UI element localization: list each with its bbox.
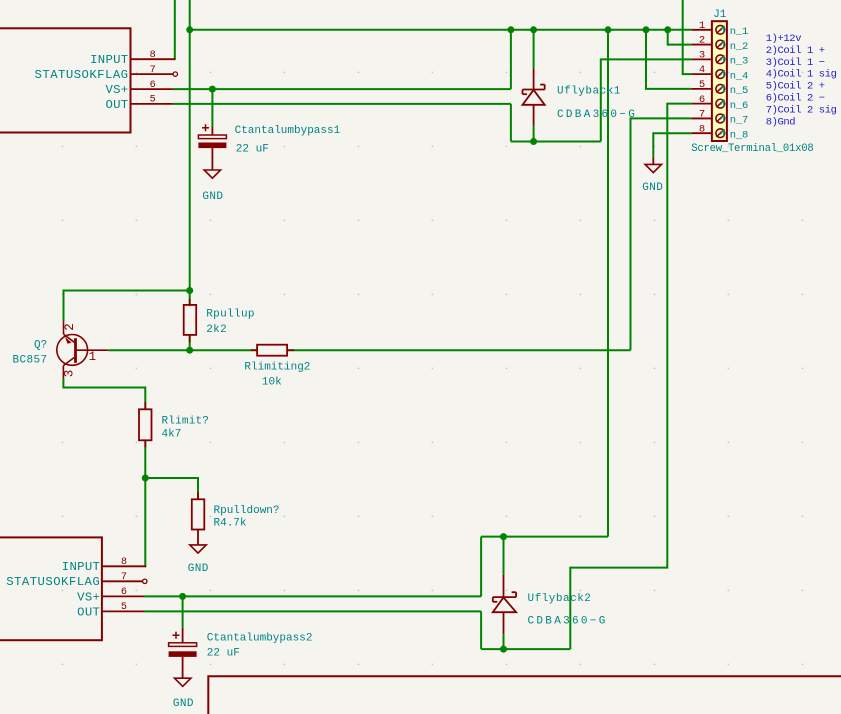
wire +12v main vertical (189, 0, 191, 350)
svg-text:GND: GND (173, 698, 194, 710)
value Screw_Terminal_01x08 (691, 143, 813, 155)
svg-text:VS+: VS+ (77, 590, 100, 604)
wire junction to U2 input (144, 478, 147, 566)
wire pin8 U1 input drop (174, 0, 176, 59)
svg-text:STATUSOKFLAG: STATUSOKFLAG (35, 68, 129, 82)
svg-text:6: 6 (121, 587, 127, 598)
Ctantalumbypass2 labels (207, 633, 313, 660)
Rpulldown? labels (214, 505, 280, 530)
wire Q base row (108, 349, 630, 351)
svg-text:Ctantalumbypass1: Ctantalumbypass1 (235, 125, 341, 137)
svg-text:INPUT: INPUT (62, 560, 100, 574)
J1 pins (691, 30, 712, 133)
wire diode1 bottom stub (533, 126, 535, 142)
svg-text:7)Coil 2 sig: 7)Coil 2 sig (766, 104, 837, 116)
svg-text:n_6: n_6 (730, 100, 748, 112)
wire VS+ row U1 (173, 88, 511, 90)
svg-text:GND: GND (202, 191, 223, 203)
svg-text:R4.7k: R4.7k (214, 518, 247, 530)
svg-text:n_3: n_3 (730, 56, 748, 68)
wire Q emitter to Rlimit (63, 379, 145, 410)
diode Uflyback1 (523, 68, 545, 125)
svg-text:22 uF: 22 uF (236, 143, 269, 155)
Rlimit? labels (162, 415, 210, 440)
connector J1 body (712, 21, 727, 141)
svg-text:n_7: n_7 (730, 115, 748, 127)
transistor Q1 BC857 (57, 321, 109, 379)
svg-text:8: 8 (121, 557, 127, 568)
svg-text:6)Coil 2 −: 6)Coil 2 − (766, 93, 825, 105)
svg-text:10k: 10k (262, 377, 282, 389)
svg-text:OUT: OUT (105, 98, 128, 112)
svg-text:Uflyback2: Uflyback2 (528, 593, 592, 605)
svg-text:Screw_Terminal_01x08: Screw_Terminal_01x08 (691, 143, 813, 155)
wire pin7 to Rlimiting2 (631, 118, 692, 350)
svg-text:4k7: 4k7 (162, 429, 182, 441)
wire diode1 top stub (533, 30, 535, 68)
svg-text:J1: J1 (713, 9, 727, 21)
svg-text:n_5: n_5 (730, 85, 748, 97)
svg-text:8: 8 (699, 123, 705, 135)
wire coil2+ long vertical (607, 30, 609, 537)
IC U1 body (0, 28, 131, 132)
wire pin3 riser (601, 59, 692, 141)
svg-text:7: 7 (699, 109, 705, 121)
partial box bottom-right (208, 676, 841, 714)
svg-text:7: 7 (121, 572, 127, 583)
IC U2 pins (102, 566, 147, 611)
svg-text:n_4: n_4 (730, 70, 748, 82)
diode Uflyback2 (493, 575, 516, 635)
wire flyback2 bottom rail (481, 648, 570, 650)
svg-text:5: 5 (699, 79, 705, 91)
svg-text:3)Coil 1 −: 3)Coil 1 − (766, 57, 825, 69)
resistor Rlimiting2 (257, 345, 287, 356)
wire pin6 long path (570, 104, 691, 649)
wire cap1 tap (211, 89, 213, 127)
reference J1 (713, 9, 727, 21)
svg-text:3: 3 (699, 49, 705, 61)
Q1 labels (13, 340, 48, 367)
svg-text:Uflyback1: Uflyback1 (557, 85, 621, 97)
wire +12v top rail (190, 29, 692, 31)
svg-text:1: 1 (89, 350, 97, 364)
svg-text:4: 4 (699, 64, 705, 76)
J1 screw symbols (716, 25, 725, 137)
wire junction to Rpulldown (145, 478, 198, 499)
wire diode2 bottom stub (503, 634, 505, 649)
Ctantalumbypass1 labels (235, 125, 341, 156)
wire Rlimit to junction (144, 440, 146, 478)
svg-text:6: 6 (150, 80, 156, 91)
svg-text:7: 7 (150, 65, 156, 76)
svg-text:INPUT: INPUT (90, 53, 128, 67)
text notes pinout (766, 33, 837, 128)
capacitor Ctantalumbypass1 (198, 124, 226, 170)
svg-text:2k2: 2k2 (206, 324, 227, 336)
svg-text:OUT: OUT (77, 605, 100, 619)
IC U2 pin numbers (121, 557, 127, 613)
Rpullup labels (206, 309, 255, 336)
svg-text:3: 3 (63, 370, 77, 378)
resistor Rpulldown? (192, 499, 205, 529)
wire pin2 feed (668, 30, 692, 45)
svg-text:8)Gnd: 8)Gnd (766, 116, 796, 128)
Uflyback2 labels (528, 593, 608, 628)
svg-text:Rlimit?: Rlimit? (162, 415, 210, 427)
IC U2 body (0, 537, 102, 640)
wire Q collector top (64, 291, 190, 322)
svg-text:Q?: Q? (34, 340, 47, 352)
wire pin8 to GND (653, 133, 691, 157)
svg-text:5: 5 (150, 95, 156, 106)
svg-text:STATUSOKFLAG: STATUSOKFLAG (6, 575, 100, 589)
svg-text:6: 6 (699, 94, 705, 106)
GND label cap2 (173, 698, 194, 710)
svg-text:BC857: BC857 (13, 354, 48, 366)
Rlimiting2 labels (244, 361, 310, 388)
wire OUT row U1 (173, 103, 511, 105)
GND label near J1 (642, 182, 663, 194)
wire pin5 feed (646, 30, 691, 89)
wire flyback1 bottom rail (511, 141, 601, 143)
GND label cap1 (202, 191, 223, 203)
svg-text:5: 5 (121, 602, 127, 613)
svg-text:Rpullup: Rpullup (206, 309, 255, 321)
wire OUT drop to flyback rail (510, 104, 512, 142)
wire VS+ row U2 (145, 595, 482, 597)
wire OUT row U2 (145, 610, 482, 612)
wire VS+ riser to flyback2 (480, 537, 482, 597)
ground below Rpulldown? (190, 530, 206, 554)
ground below cap2 (175, 678, 191, 686)
wire junction dots (142, 26, 671, 652)
wire flyback2 top rail (481, 536, 608, 538)
svg-text:4)Coil 1 sig: 4)Coil 1 sig (766, 69, 837, 81)
wire OUT drop to flyback2 rail (480, 611, 482, 649)
IC U1 pin names (35, 53, 129, 112)
svg-text:n_2: n_2 (730, 41, 748, 53)
svg-text:22 uF: 22 uF (207, 648, 240, 660)
svg-text:Rpulldown?: Rpulldown? (214, 505, 280, 517)
svg-text:1: 1 (699, 20, 705, 32)
resistor pin stubs (145, 299, 294, 499)
svg-text:8: 8 (150, 50, 156, 61)
IC U2 pin names (6, 560, 100, 619)
Q1 pin numbers (63, 323, 97, 377)
wire cap2 tap (182, 596, 184, 627)
GND label Rpulldown (188, 563, 209, 575)
Uflyback1 labels (557, 85, 637, 121)
wire VS+ to rail riser (510, 30, 512, 89)
wire pin4 feed from top (683, 0, 692, 74)
svg-text:n_1: n_1 (730, 26, 748, 38)
svg-text:5)Coil 2 +: 5)Coil 2 + (766, 81, 825, 93)
IC U1 pin numbers (150, 50, 156, 106)
svg-text:2: 2 (699, 35, 705, 47)
svg-text:GND: GND (642, 182, 663, 194)
wire diode2 top stub (503, 537, 505, 575)
resistor Rpullup (184, 305, 197, 335)
svg-text:CDBA360−G: CDBA360−G (528, 615, 608, 627)
J1 pin numbers (699, 20, 705, 135)
capacitor Ctantalumbypass2 (169, 628, 197, 678)
svg-text:GND: GND (188, 563, 209, 575)
svg-text:2: 2 (63, 323, 77, 331)
svg-text:1)+12v: 1)+12v (766, 33, 802, 45)
svg-text:n_8: n_8 (730, 129, 748, 141)
svg-text:CDBA360−G: CDBA360−G (557, 109, 637, 121)
ground near J1 (645, 157, 661, 172)
ground below cap1 (204, 170, 220, 178)
net labels n_1..n_8 (730, 26, 748, 141)
svg-text:Ctantalumbypass2: Ctantalumbypass2 (207, 633, 313, 645)
IC U1 pins (131, 59, 178, 104)
svg-text:VS+: VS+ (105, 83, 128, 97)
resistor Rlimit? (139, 409, 152, 440)
svg-text:Rlimiting2: Rlimiting2 (244, 361, 310, 373)
svg-text:2)Coil 1 +: 2)Coil 1 + (766, 45, 825, 57)
